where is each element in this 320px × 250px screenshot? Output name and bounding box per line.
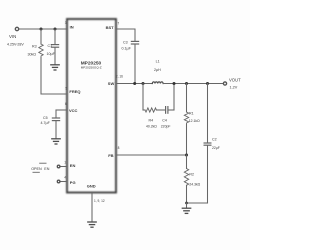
svg-text:3: 3: [65, 21, 67, 25]
svg-text:VCC: VCC: [69, 108, 78, 113]
svg-text:1, 9, 12: 1, 9, 12: [94, 199, 105, 203]
svg-text:220pF: 220pF: [161, 124, 171, 128]
capacitor C4 220pF: [165, 107, 167, 114]
wire R1 bottom to FB node: [186, 124, 188, 155]
svg-text:2µH: 2µH: [154, 68, 161, 72]
svg-text:C3: C3: [123, 41, 128, 45]
svg-text:40.2kΩ: 40.2kΩ: [146, 124, 157, 128]
wire C4 to loop right: [168, 109, 174, 111]
resistor R1 12.1k: [184, 112, 188, 124]
node PG terminal: [57, 180, 60, 183]
svg-text:MP20250GQ-Z: MP20250GQ-Z: [81, 65, 102, 69]
svg-text:4: 4: [64, 175, 66, 179]
wire ripple loop right: [173, 84, 175, 111]
node junction BST cap on SW: [133, 82, 136, 85]
svg-text:IN: IN: [70, 25, 74, 30]
wire VCC cap top lead: [55, 110, 57, 118]
ground below C5: [52, 139, 60, 144]
capacitor C3 0.1uF: [131, 40, 138, 42]
svg-text:0.1µF: 0.1µF: [122, 47, 132, 51]
svg-text:FB: FB: [108, 153, 113, 158]
svg-text:2, 16: 2, 16: [116, 74, 123, 78]
svg-text:R2: R2: [189, 173, 194, 177]
node EN terminal: [57, 165, 60, 168]
svg-text:C4: C4: [162, 119, 167, 123]
node VIN terminal: [15, 27, 18, 30]
node VOUT terminal: [223, 82, 226, 85]
capacitor C5 4.7uF: [52, 117, 59, 119]
wire VIN rail to IN pin: [19, 28, 67, 30]
op-amp U1 MP20250 IC body: [67, 19, 116, 193]
wire R3 top lead: [40, 29, 42, 44]
wire R4 to C4: [156, 109, 165, 111]
svg-text:R3: R3: [32, 45, 37, 49]
node junction R2 bottom: [185, 202, 188, 205]
svg-text:VIN: VIN: [9, 34, 16, 39]
wire ripple loop left: [142, 84, 144, 111]
node junction FB divider: [185, 154, 188, 157]
svg-text:30kΩ: 30kΩ: [28, 53, 37, 57]
capacitor C2 22uF: [204, 142, 211, 144]
svg-text:GND: GND: [87, 184, 96, 189]
svg-text:FREQ: FREQ: [69, 89, 80, 94]
wire VOUT rail: [163, 83, 223, 85]
label OPEN EN: [39, 162, 46, 164]
svg-text:C2: C2: [212, 137, 217, 141]
svg-text:OPEN: OPEN: [31, 167, 42, 171]
node junction loop left: [142, 82, 145, 85]
wire VCC pin stub: [56, 109, 67, 111]
capacitor C1 10uF: [51, 44, 58, 46]
wire bottom rail R2 to C2: [187, 202, 208, 204]
wire R2 bottom to gnd rail: [186, 185, 188, 203]
svg-text:BST: BST: [106, 25, 115, 30]
resistor R4 40.2k: [145, 108, 156, 112]
node junction C1 top: [54, 28, 57, 31]
svg-text:R4: R4: [149, 119, 154, 123]
svg-text:C1: C1: [48, 44, 53, 48]
svg-text:SW: SW: [108, 81, 115, 86]
node junction R3 top: [40, 28, 43, 31]
svg-text:6: 6: [65, 102, 67, 106]
svg-text:PG: PG: [70, 180, 76, 185]
svg-text:10µF: 10µF: [47, 52, 56, 56]
wire C3 to SW rail: [134, 44, 136, 83]
wire VCC cap bottom lead: [55, 121, 57, 138]
svg-text:L1: L1: [156, 59, 160, 63]
svg-text:1.2V: 1.2V: [230, 86, 238, 90]
resistor R3 30k: [39, 44, 43, 58]
svg-text:24.3kΩ: 24.3kΩ: [189, 183, 200, 187]
svg-text:VOUT: VOUT: [229, 78, 241, 83]
svg-text:4.7µF: 4.7µF: [41, 121, 51, 125]
wire R1 top lead: [186, 84, 188, 113]
ground below R2: [182, 208, 190, 213]
wire gnd stub: [186, 203, 188, 208]
svg-text:22µF: 22µF: [212, 146, 220, 150]
node junction loop right: [173, 82, 176, 85]
wire C1 bottom lead: [54, 48, 56, 64]
wire ripple loop bottom left: [143, 109, 145, 111]
wire GND pin lead: [91, 193, 93, 222]
wire SW rail: [116, 83, 152, 85]
svg-text:4.25V-28V: 4.25V-28V: [7, 43, 24, 47]
ground below C1: [51, 65, 59, 70]
wire C2 top lead: [207, 84, 209, 143]
svg-text:8: 8: [118, 146, 120, 150]
svg-text:5: 5: [65, 87, 67, 91]
wire C2 bottom lead: [207, 146, 209, 203]
svg-text:EN: EN: [44, 167, 49, 171]
svg-text:EN: EN: [70, 163, 76, 168]
wire R2 top lead: [186, 155, 188, 169]
svg-text:1: 1: [64, 161, 66, 165]
resistor R2 24.3k: [184, 169, 188, 186]
wire C1 top lead: [54, 29, 56, 44]
svg-text:C5: C5: [43, 116, 48, 120]
inductor L1 2uH: [152, 82, 163, 84]
node junction R1 top: [185, 82, 188, 85]
wire EN stub: [60, 166, 67, 168]
wire R3 bottom to FREQ: [41, 58, 67, 95]
node junction C2 top: [206, 82, 209, 85]
ground below GND pin: [88, 222, 96, 227]
svg-text:R1: R1: [189, 112, 194, 116]
wire PG stub: [60, 181, 67, 183]
svg-text:7: 7: [117, 21, 119, 25]
wire BST stub to C3: [116, 29, 135, 41]
svg-text:12.1kΩ: 12.1kΩ: [189, 119, 200, 123]
wire FB line: [116, 154, 187, 156]
